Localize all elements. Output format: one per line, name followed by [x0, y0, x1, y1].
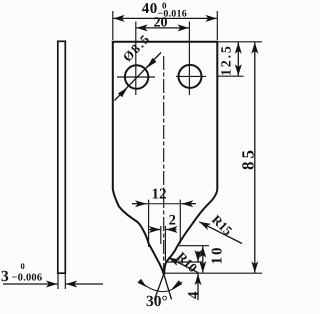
centerline vertical of right hole / extension for 20	[188, 22, 190, 96]
extension line top right (for 12.5 and 85)	[218, 41, 262, 43]
centerline horizontal of left hole	[117, 76, 155, 78]
main vertical axis centerline	[163, 56, 165, 273]
left arrowhead of angle arc	[138, 279, 147, 288]
leader for R10	[168, 258, 198, 273]
extension line at hole centerline for 12.5	[218, 75, 244, 77]
dimension 2 line with outside arrows	[149, 229, 160, 231]
svg-text:12: 12	[152, 187, 167, 203]
svg-text:10: 10	[209, 246, 225, 265]
arrowhead upper (points at circle from outside)	[147, 58, 157, 68]
dimension text 3 with tolerance 0/-0.006	[1, 261, 42, 285]
leader for R15	[199, 222, 242, 244]
angle dimension arc 30 degrees	[140, 281, 182, 291]
right arrowhead of angle arc	[172, 280, 183, 289]
arrowhead lower (points at circle from outside)	[118, 87, 128, 97]
dimension 12 line with outside arrows	[132, 203, 147, 205]
svg-text:3: 3	[1, 268, 9, 285]
dimension 3 (-0/-0.006) line with inward arrows	[3, 283, 57, 285]
svg-text:12.5: 12.5	[220, 44, 235, 76]
svg-text:85: 85	[239, 147, 258, 170]
centerline horizontal of right hole	[176, 75, 206, 77]
dimension 10 line	[202, 246, 204, 273]
hole left (Ø8.5)	[125, 65, 148, 88]
dimension 4 line with outside arrows	[197, 251, 199, 262]
svg-text:R15: R15	[209, 212, 236, 239]
dimension 12.5 line	[237, 42, 239, 75]
front view outline of blade	[113, 42, 218, 274]
svg-text:0: 0	[21, 261, 25, 271]
side view outline (left view of blade, 3mm thick)	[58, 41, 66, 273]
dimension 85 line	[254, 42, 256, 272]
extension line at cusp level for 10	[179, 245, 209, 247]
extension lines for 2 dimension	[160, 226, 162, 244]
svg-text:2: 2	[169, 213, 176, 229]
leader line for Ø8.5 through left hole	[115, 53, 162, 101]
centerline vertical of left hole / extension for 20	[135, 22, 137, 96]
dimension 40 (-0/-0.016) line	[113, 17, 217, 19]
bevel edge extension legs below tip for 30 degree angle	[155, 274, 164, 300]
extension lines for 12 dimension	[148, 200, 150, 247]
extension line at bevel start for 4	[166, 261, 204, 263]
svg-text:30°: 30°	[146, 293, 168, 310]
extension line at tip level (bottom ref for 10, 4, 85)	[164, 272, 263, 274]
dimension 20 line between hole centers	[136, 27, 189, 29]
svg-text:40: 40	[142, 1, 158, 17]
extension lines for 40 dimension	[112, 11, 114, 40]
svg-text:−0.006: −0.006	[12, 273, 43, 284]
dimension text 40 with tolerance	[142, 1, 187, 20]
side view extension lines for 3mm dimension	[57, 274, 59, 289]
svg-text:4: 4	[186, 291, 202, 299]
hole right (Ø8.5)	[179, 65, 202, 88]
svg-text:20: 20	[154, 16, 168, 31]
